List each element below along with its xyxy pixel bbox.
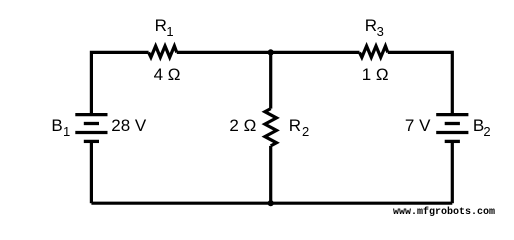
svg-text:28 V: 28 V (111, 116, 147, 135)
svg-text:R: R (155, 16, 167, 35)
svg-text:1 Ω: 1 Ω (362, 65, 389, 84)
wire: middle branch bottom (R2 to bottom junction) (269, 146, 272, 203)
wire: R3 to top-right corner, right wire down to B2 (388, 52, 453, 115)
resistor R1 zigzag (149, 46, 177, 57)
battery B2 long plate (top) (436, 113, 468, 116)
svg-text:7 V: 7 V (405, 116, 431, 135)
wire: B2 negative stub down to bottom-right corner (451, 141, 454, 203)
battery B2 long plate (lower) (436, 131, 468, 134)
svg-text:R: R (289, 116, 301, 135)
node: top junction dot (268, 49, 274, 55)
svg-text:1: 1 (166, 24, 173, 39)
battery B2 short plate (bottom) (445, 140, 460, 143)
svg-text:2 Ω: 2 Ω (229, 116, 256, 135)
battery B1 short plate (bottom) (84, 140, 99, 143)
wire: bottom wire (91, 202, 452, 205)
wire: middle junction to R3 (271, 51, 360, 54)
wire top-left: B1 positive stub, left wire up, top wire to R1 (91, 52, 148, 115)
svg-text:3: 3 (377, 24, 384, 39)
resistor R2 zigzag (vertical) (265, 109, 277, 146)
svg-text:R: R (365, 16, 377, 35)
wire: middle branch top (junction to R2) (269, 52, 272, 108)
svg-text:2: 2 (483, 124, 490, 139)
wire: R1 to middle junction (177, 51, 271, 54)
node: bottom junction dot (268, 200, 274, 206)
svg-text:www.mfgrobots.com: www.mfgrobots.com (393, 206, 495, 218)
battery B2 short plate (445, 122, 460, 125)
svg-text:B: B (51, 116, 62, 135)
svg-text:1: 1 (63, 124, 70, 139)
battery B1 long plate (lower) (75, 131, 107, 134)
battery B1 long plate (top) (75, 113, 107, 116)
battery B1 short plate (84, 122, 99, 125)
svg-text:2: 2 (302, 124, 309, 139)
wire: B1 negative stub down to bottom-left corner (90, 141, 93, 203)
resistor R3 zigzag (360, 46, 388, 57)
svg-text:4 Ω: 4 Ω (154, 65, 181, 84)
